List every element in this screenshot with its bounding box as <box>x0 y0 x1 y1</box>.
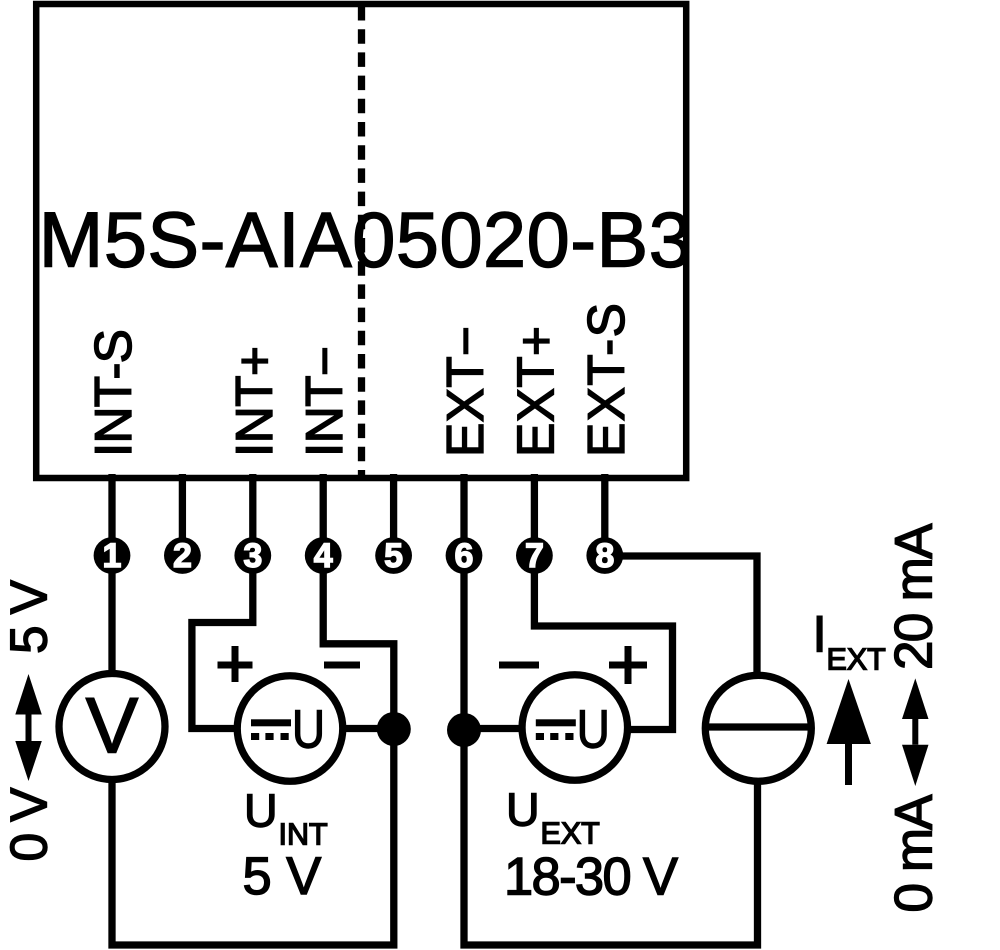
range arrow right (current span) <box>902 678 929 786</box>
svg-text:5 V: 5 V <box>0 579 58 654</box>
svg-text:M5S-AIA05020-B3: M5S-AIA05020-B3 <box>39 198 692 284</box>
wire pin 4 stub <box>320 474 327 556</box>
svg-text:INT+: INT+ <box>225 346 283 457</box>
terminal 5 <box>375 537 412 575</box>
svg-text:U: U <box>506 784 540 836</box>
wire node B to U_EXT minus terminal <box>464 725 522 732</box>
wire pin 1 stub <box>108 474 115 556</box>
svg-text:4: 4 <box>314 537 333 575</box>
wire pin 8 to current source top <box>605 556 757 676</box>
svg-text:5 V: 5 V <box>243 847 322 906</box>
dashed divider between INT and EXT sections <box>358 6 365 478</box>
wire pin 3 stub <box>249 474 256 556</box>
DC source U_INT body <box>237 676 343 782</box>
DC symbol solid bar of U_EXT <box>536 719 576 726</box>
node B junction dot <box>447 713 481 747</box>
module box M5S-AIA05020-B3 <box>36 4 686 478</box>
voltmeter V body <box>59 674 165 780</box>
terminal 2 <box>164 537 201 575</box>
wire pin 6 down to bottom loop to current source <box>464 556 758 945</box>
svg-text:U: U <box>577 700 610 760</box>
svg-text:1: 1 <box>103 537 122 575</box>
wire pin 2 stub <box>179 474 186 556</box>
wire pin 8 stub <box>601 474 608 556</box>
terminal 3 <box>234 537 271 575</box>
svg-text:INT-S: INT-S <box>84 329 142 457</box>
svg-text:EXT+: EXT+ <box>506 326 564 457</box>
svg-text:2: 2 <box>173 537 192 575</box>
current direction arrow I_EXT <box>827 679 871 785</box>
polarity minus of U_EXT <box>499 662 539 669</box>
svg-text:INT−: INT− <box>295 346 353 457</box>
DC symbol dashed bar of U_INT <box>251 733 259 740</box>
terminal 7 <box>516 537 553 575</box>
svg-text:8: 8 <box>595 537 614 575</box>
svg-text:3: 3 <box>243 537 262 575</box>
wire pin 6 stub <box>460 474 467 556</box>
node A junction dot <box>377 712 411 746</box>
wire pin 7 stub <box>531 474 538 556</box>
svg-text:EXT−: EXT− <box>436 326 494 457</box>
svg-text:0 mA: 0 mA <box>885 794 944 913</box>
svg-text:I: I <box>813 606 827 663</box>
terminal 8 <box>586 537 623 575</box>
wire pin 7 to U_EXT plus terminal <box>534 556 672 730</box>
label I_EXT <box>813 606 886 677</box>
wire pin 4 down to bottom loop <box>112 556 394 945</box>
wire U_INT minus terminal to node A <box>343 725 394 732</box>
DC symbol dashed bar of U_EXT <box>536 733 544 740</box>
value label U_INT <box>244 785 328 852</box>
svg-text:U: U <box>292 700 325 760</box>
current source horizontal bar <box>706 723 811 730</box>
svg-text:6: 6 <box>455 537 474 575</box>
DC source U_EXT body <box>522 675 628 781</box>
svg-text:0 V: 0 V <box>0 787 58 862</box>
wire pin 5 stub <box>390 474 397 556</box>
polarity minus of U_INT <box>324 662 360 669</box>
range arrow left (voltage span) <box>15 674 42 781</box>
wire pin 1 to voltmeter <box>108 556 115 674</box>
DC symbol solid bar of U_INT <box>251 719 291 726</box>
svg-text:U: U <box>244 785 278 837</box>
svg-text:V: V <box>86 681 139 770</box>
svg-text:EXT: EXT <box>827 643 886 677</box>
svg-text:20 mA: 20 mA <box>885 523 944 670</box>
svg-text:EXT: EXT <box>541 817 600 851</box>
terminal 1 <box>94 537 131 575</box>
svg-text:EXT-S: EXT-S <box>577 303 635 457</box>
terminal 6 <box>446 537 483 575</box>
current source body <box>705 675 811 781</box>
svg-text:7: 7 <box>525 537 544 575</box>
value label U_EXT <box>506 784 600 851</box>
polarity plus of U_INT <box>218 646 253 682</box>
terminal 4 <box>305 537 342 575</box>
svg-text:5: 5 <box>384 537 403 575</box>
svg-text:18-30 V: 18-30 V <box>504 848 678 907</box>
polarity plus of U_EXT <box>609 646 647 684</box>
wire pin 3 to U_INT plus terminal <box>192 556 253 729</box>
